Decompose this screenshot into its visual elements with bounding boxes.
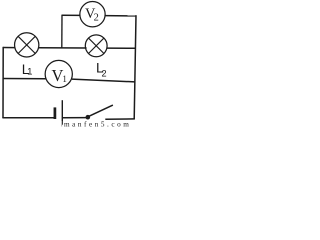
svg-text:manfen5.com: manfen5.com [64,120,131,128]
switch S pivot dot [86,115,91,120]
voltmeter V2 [80,2,105,27]
lamp L2 [85,35,107,57]
wire lamp L2 to right rail [106,47,135,49]
voltmeter V1 [45,60,72,87]
lamp L1 [15,33,39,57]
svg-text:2: 2 [102,68,107,78]
wire V2 right to top-right corner [105,15,136,17]
svg-text:2: 2 [94,12,99,23]
svg-text:1: 1 [62,74,67,84]
watermark manfen5.com [61,121,63,127]
svg-text:1: 1 [27,67,32,78]
switch S blade [88,105,113,117]
switch S fixed contact wire to bottom-right corner [105,118,135,120]
wire left rail [2,47,4,118]
wire V1 right to right rail [72,79,135,82]
wire V1 left [3,78,46,80]
wire between lamps [39,47,87,49]
battery positive plate [61,100,63,125]
wire right rail [134,15,136,119]
wire top-left stub to V2 [62,14,80,16]
wire V2 branch vertical drop [61,15,63,48]
wire battery to switch [63,117,87,119]
wire lamp row left [3,47,15,49]
wire bottom left [2,117,54,119]
battery negative plate [54,107,57,119]
